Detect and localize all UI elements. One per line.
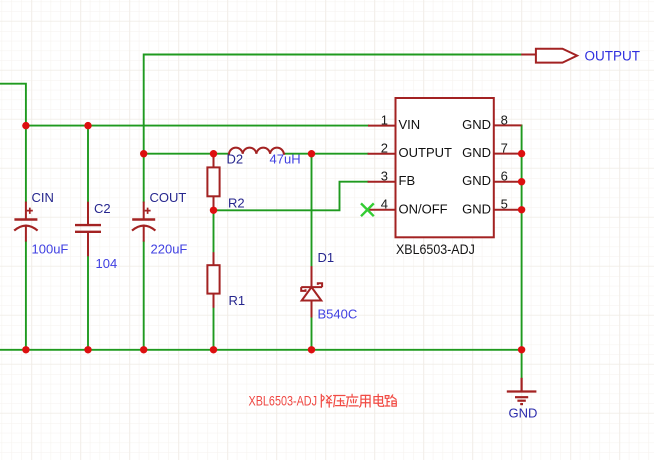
wire switch rail left (144, 153, 228, 155)
junction node FB-R2-R1 (210, 207, 217, 214)
char ying (apply) (347, 394, 359, 407)
svg-text:6: 6 (501, 169, 508, 184)
wire D1 branch upper (311, 154, 313, 266)
pin 1 lead VIN (368, 125, 396, 127)
junction node GND-pin5 (518, 206, 525, 213)
wire VIN rail (26, 125, 368, 127)
wire top-left input stub (0, 84, 26, 126)
port OUTPUT symbol (521, 54, 536, 56)
capacitor COUT (132, 202, 155, 242)
svg-text:100uF: 100uF (32, 242, 69, 257)
wire C2 branch lower (87, 256, 89, 350)
wire output feed to port (144, 55, 522, 154)
wire FB net (214, 182, 368, 211)
junction node rail-C2 (84, 346, 91, 353)
inductor D2 (228, 148, 285, 154)
resistor R1 (207, 252, 219, 308)
wire CIN branch upper (25, 126, 27, 202)
ground symbol (507, 378, 537, 404)
capacitor CIN (14, 202, 37, 242)
svg-text:D2: D2 (227, 152, 244, 167)
pin 4 lead ON/OFF (367, 209, 395, 211)
svg-text:OUTPUT: OUTPUT (585, 48, 641, 63)
capacitor C2 (75, 202, 101, 257)
svg-text:XBL6503-ADJ: XBL6503-ADJ (396, 241, 475, 257)
svg-text:FB: FB (399, 173, 416, 188)
svg-text:3: 3 (381, 169, 388, 184)
svg-text:8: 8 (501, 113, 508, 128)
junction node rail-CIN (22, 346, 29, 353)
junction node GND-pin7 (518, 150, 525, 157)
char ya (pressure) (334, 395, 346, 406)
resistor R2 (207, 154, 219, 211)
junction node rail-COUT (140, 346, 147, 353)
svg-text:GND: GND (462, 145, 491, 160)
svg-text:47uH: 47uH (270, 152, 301, 167)
pin 3 lead FB (368, 181, 396, 183)
wire R1 top (213, 210, 215, 252)
svg-text:COUT: COUT (150, 190, 187, 205)
pin 6 lead (494, 181, 522, 183)
wire COUT branch lower (143, 242, 145, 350)
junction node rail-D1 (308, 346, 315, 353)
junction node rail-R1 (210, 346, 217, 353)
junction node SW-R2 (210, 150, 217, 157)
svg-text:R1: R1 (229, 293, 246, 308)
wire switch rail right (284, 153, 368, 155)
wire C2 branch upper (87, 126, 89, 202)
junction node VIN-C2 (84, 122, 91, 129)
svg-text:B540C: B540C (318, 306, 358, 321)
svg-text:GND: GND (462, 117, 491, 132)
wire D1 branch lower (311, 318, 313, 350)
svg-text:220uF: 220uF (151, 242, 188, 257)
svg-text:1: 1 (381, 113, 388, 128)
pin 2 lead OUTPUT (368, 153, 396, 155)
junction node SW-D1 (308, 150, 315, 157)
char dian (electric) (374, 394, 384, 406)
svg-text:OUTPUT: OUTPUT (399, 145, 453, 160)
junction node rail-GND (518, 346, 525, 353)
svg-text:104: 104 (96, 256, 118, 271)
junction node SW-COUT (140, 150, 147, 157)
svg-text:VIN: VIN (399, 117, 421, 132)
svg-text:C2: C2 (94, 201, 111, 216)
wire CIN branch lower (25, 242, 27, 350)
char yong (use) (360, 395, 370, 407)
wire COUT branch upper (143, 154, 145, 202)
diode D1 schottky B540C (301, 266, 322, 317)
svg-text:7: 7 (501, 141, 508, 156)
svg-text:GND: GND (509, 406, 538, 421)
svg-text:GND: GND (462, 201, 491, 216)
op IC U1 XBL6503-ADJ box (396, 98, 494, 237)
wire GND right vertical (521, 125, 523, 377)
svg-text:ON/OFF: ON/OFF (399, 201, 448, 216)
char lu (road) (385, 395, 396, 406)
wire R1 bottom (213, 308, 215, 350)
junction node VIN-CIN (22, 122, 29, 129)
junction node GND-pin6 (518, 178, 525, 185)
svg-text:5: 5 (501, 197, 508, 212)
svg-text:R2: R2 (228, 196, 245, 211)
pin 5 lead (494, 209, 522, 211)
svg-text:2: 2 (381, 141, 388, 156)
svg-text:4: 4 (381, 197, 388, 212)
svg-text:GND: GND (462, 173, 491, 188)
svg-text:CIN: CIN (32, 190, 54, 205)
svg-text:XBL6503-ADJ: XBL6503-ADJ (249, 393, 318, 409)
title chinese characters drawn as strokes (321, 394, 396, 407)
no-connect X on pin 4 (361, 203, 374, 216)
char jiang (down) (321, 394, 332, 407)
wire ground rail (0, 349, 522, 351)
pin 7 lead (494, 153, 522, 155)
pin 8 lead (494, 124, 522, 126)
svg-text:D1: D1 (318, 250, 335, 265)
